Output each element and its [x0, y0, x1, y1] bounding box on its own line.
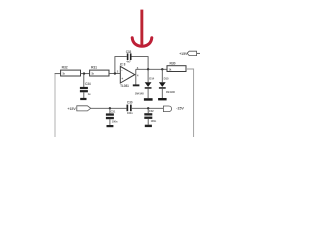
diode D14: [145, 82, 152, 89]
svg-text:-: -: [121, 68, 122, 72]
node feedback junction at inverting input: [114, 72, 116, 74]
wire input vertical (left): [54, 74, 56, 137]
svg-text:100n: 100n: [112, 119, 118, 123]
resistor R30: [167, 66, 186, 72]
red annotation arrow shaft: [140, 10, 143, 47]
wire output rail: [136, 68, 167, 70]
wire +15V flag to C30: [91, 107, 127, 109]
svg-text:D15: D15: [164, 77, 169, 81]
svg-text:+: +: [121, 77, 123, 81]
capacitor C32: [144, 113, 152, 119]
node output/D15 junction: [161, 68, 163, 70]
svg-text:1N4148: 1N4148: [135, 92, 144, 96]
wire D14 to lower bar: [147, 89, 149, 99]
wire R31 to op-amp inverting input: [109, 73, 120, 75]
wire input stub into R32: [55, 73, 61, 75]
svg-text:4: 4: [137, 73, 139, 77]
power flag +15V top symbol: [187, 51, 197, 55]
svg-text:100n: 100n: [151, 119, 157, 123]
wire feedback loop right-down to output rail: [132, 57, 149, 70]
wire junction down to C34: [83, 74, 85, 87]
resistor R31: [90, 70, 109, 76]
svg-text:D14: D14: [149, 77, 154, 81]
wire C30 to -15V flag: [132, 107, 164, 109]
svg-text:C34: C34: [85, 82, 91, 86]
wire rail down to D15: [161, 69, 163, 82]
wire R30 to right edge corner: [186, 69, 194, 137]
wire D15 to lower bar: [161, 89, 163, 98]
svg-text:IC 8: IC 8: [120, 62, 126, 66]
capacitor C30: [127, 105, 132, 112]
wire junction down to C31: [109, 108, 111, 113]
negative supply bar under op-amp: [133, 84, 140, 86]
diode D15: [159, 82, 166, 89]
ground bar under C32: [145, 125, 152, 127]
wire C31 to ground: [109, 119, 111, 125]
svg-text:100n: 100n: [127, 111, 133, 115]
wire C34 to ground: [83, 92, 85, 98]
red annotation arrow head: [132, 38, 152, 47]
op-amp U IC8 triangle: [120, 66, 135, 83]
wire junction down to C32: [147, 108, 149, 113]
capacitor C34: [80, 87, 88, 92]
svg-text:R31: R31: [91, 65, 97, 69]
svg-text:4n7: 4n7: [126, 60, 131, 64]
wire op-amp output/V- vertical: [135, 69, 137, 84]
capacitor C33: [127, 53, 132, 60]
svg-text:1u: 1u: [88, 92, 91, 96]
capacitor C31: [106, 113, 114, 119]
node junction R32/R31/C34: [83, 72, 85, 74]
svg-text:+15V: +15V: [179, 52, 188, 56]
power flag +15V bottom symbol: [77, 106, 91, 111]
wire R32 to R31: [81, 73, 90, 75]
ground bar under C31: [107, 125, 114, 127]
svg-text:-15V: -15V: [176, 106, 184, 110]
svg-text:C30: C30: [127, 101, 133, 105]
node output/feedback/D14 junction: [147, 68, 149, 70]
svg-text:R32: R32: [62, 65, 68, 69]
node bottom rail / C32 junction: [147, 107, 149, 109]
power flag -15V symbol: [163, 106, 171, 112]
wire +15V top stub: [197, 52, 200, 54]
ground bar under C34: [80, 98, 86, 100]
svg-text:TL081: TL081: [120, 84, 129, 88]
resistor R32: [61, 70, 81, 76]
svg-text:+15V: +15V: [67, 107, 76, 111]
svg-text:C32: C32: [149, 109, 154, 113]
node bottom rail / C31 junction: [109, 107, 111, 109]
negative supply bar under D14: [144, 98, 153, 101]
wire rail down to D14: [147, 69, 149, 82]
wire feedback loop up-left: [115, 57, 127, 74]
wire C32 to ground: [147, 119, 149, 125]
svg-text:C31: C31: [111, 109, 116, 113]
svg-text:1N4148: 1N4148: [166, 90, 175, 94]
negative supply bar under D15: [158, 98, 167, 100]
svg-text:R30: R30: [170, 61, 176, 65]
